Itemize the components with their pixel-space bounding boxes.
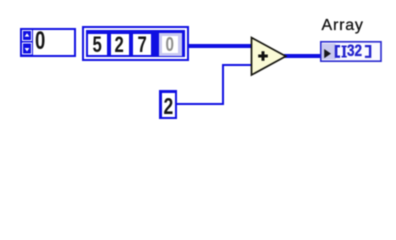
serif capital I of I32 <box>341 45 346 57</box>
thick array bracket [ <box>335 45 340 58</box>
plus sign <box>258 51 268 61</box>
array element 2 value 2 <box>111 34 129 55</box>
array element 4 dimmed 0 <box>159 33 182 57</box>
lavender terminal strip <box>322 43 336 59</box>
digits 32 of I32 <box>347 45 362 58</box>
array element 3 value 7 <box>133 34 151 55</box>
wire: constant 2 vertical segment <box>222 64 224 105</box>
indicator input arrow <box>324 49 331 58</box>
array element 1 value 5 <box>88 34 107 55</box>
wire: to add bottom input <box>222 64 252 66</box>
decrement button <box>23 43 32 54</box>
array indicator terminal [I32] <box>320 41 382 62</box>
wire: constant 2 horizontal segment <box>176 103 224 105</box>
wire: add output to indicator (thick 1D array wire) <box>284 54 321 58</box>
wire: array constant to add top input (thick 1D array wire) <box>186 44 252 48</box>
increment button <box>22 30 32 55</box>
numeric constant 2 <box>159 90 177 119</box>
indicator box border <box>321 41 381 60</box>
add function (triangle with plus) <box>248 34 290 79</box>
index value 0 <box>35 32 45 51</box>
index value field <box>33 30 75 55</box>
label Array <box>322 18 364 34</box>
numeric index display (array index control) <box>20 28 76 57</box>
closing bracket ] <box>365 45 371 58</box>
array constant shell <box>82 26 189 62</box>
